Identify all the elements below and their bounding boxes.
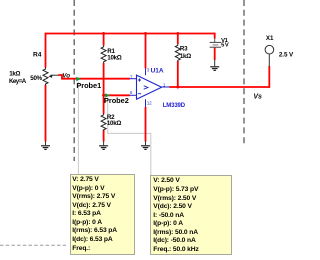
- svg-text:Key=A: Key=A: [9, 78, 27, 85]
- svg-text:2.5 V: 2.5 V: [279, 52, 294, 59]
- svg-text:X1: X1: [266, 35, 274, 42]
- svg-text:5 V: 5 V: [221, 43, 229, 49]
- svg-text:R3: R3: [180, 46, 188, 53]
- svg-text:Probe1: Probe1: [76, 81, 101, 90]
- svg-text:10kΩ: 10kΩ: [107, 120, 121, 127]
- svg-text:R4: R4: [33, 51, 42, 58]
- svg-text:LM339D: LM339D: [163, 103, 186, 109]
- svg-text:U1A: U1A: [151, 68, 164, 75]
- svg-text:10kΩ: 10kΩ: [107, 55, 121, 62]
- svg-text:Vo: Vo: [62, 72, 70, 79]
- svg-text:Probe2: Probe2: [104, 96, 129, 105]
- svg-text:1kΩ: 1kΩ: [9, 70, 20, 77]
- svg-text:12: 12: [147, 101, 152, 106]
- svg-text:50%: 50%: [30, 75, 42, 82]
- svg-text:Vs: Vs: [253, 94, 262, 101]
- svg-text:6: 6: [130, 90, 133, 95]
- svg-text:1kΩ: 1kΩ: [180, 53, 191, 60]
- svg-text:3: 3: [147, 68, 150, 73]
